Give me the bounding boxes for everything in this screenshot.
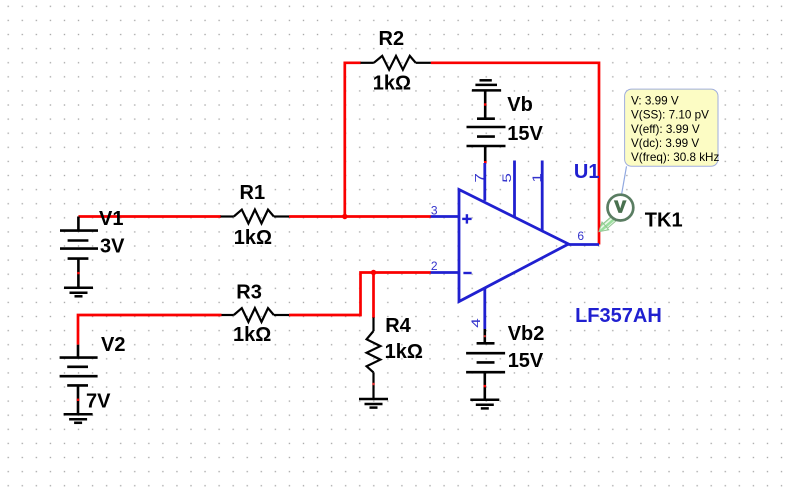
- svg-text:4: 4: [469, 318, 483, 328]
- wire feedback vertical left: [343, 62, 346, 217]
- ground under R4: [359, 399, 388, 408]
- svg-text:15V: 15V: [508, 350, 544, 372]
- resistor R4: [367, 318, 381, 400]
- svg-text:V(eff): 3.99 V: V(eff): 3.99 V: [631, 123, 700, 136]
- svg-text:U1: U1: [574, 161, 600, 183]
- svg-text:V: 3.99 V: V: 3.99 V: [631, 94, 679, 107]
- svg-text:Vb: Vb: [507, 94, 533, 116]
- svg-text:7V: 7V: [86, 391, 111, 413]
- svg-text:R4: R4: [385, 315, 411, 337]
- wire node B to op-amp pin 2: [374, 271, 432, 274]
- node Vb ground connector: [484, 103, 486, 105]
- svg-text:R3: R3: [236, 282, 262, 304]
- svg-text:TK1: TK1: [645, 210, 683, 232]
- svg-text:V1: V1: [99, 208, 123, 230]
- svg-text:3: 3: [431, 204, 438, 218]
- svg-text:2: 2: [431, 259, 438, 273]
- node V1 ground connector: [77, 272, 79, 274]
- svg-text:V(freq): 30.8 kHz: V(freq): 30.8 kHz: [631, 151, 719, 164]
- svg-text:V(SS): 7.10 pV: V(SS): 7.10 pV: [631, 109, 709, 122]
- svg-text:LF357AH: LF357AH: [575, 305, 662, 327]
- op-amp plus sign: [462, 214, 471, 223]
- svg-text:3V: 3V: [100, 236, 125, 258]
- junction node B: [371, 270, 376, 275]
- svg-text:1kΩ: 1kΩ: [234, 227, 272, 249]
- wire R3 to node B: [289, 273, 374, 316]
- svg-text:V(dc): 3.99 V: V(dc): 3.99 V: [631, 137, 699, 150]
- voltage source V1: [60, 217, 98, 288]
- ground under Vb2: [470, 400, 499, 409]
- svg-text:R2: R2: [379, 28, 405, 50]
- wire V1 to R1: [78, 215, 221, 218]
- resistor R3: [222, 308, 290, 322]
- svg-text:Vb2: Vb2: [508, 323, 545, 345]
- node R4 ground connector: [372, 383, 374, 385]
- power source Vb2: [466, 329, 505, 400]
- wire top to R2: [344, 61, 362, 64]
- probe tooltip TK1: [625, 89, 720, 166]
- svg-text:15V: 15V: [507, 123, 543, 145]
- resistor R1: [221, 210, 290, 224]
- svg-text:6: 6: [577, 229, 584, 243]
- wire R1 to op-amp pin 3: [289, 215, 431, 218]
- node Vb2 top connector: [484, 335, 486, 337]
- svg-text:1kΩ: 1kΩ: [373, 73, 411, 95]
- ground under V1: [64, 288, 93, 297]
- svg-text:R1: R1: [240, 182, 266, 204]
- svg-text:5: 5: [500, 173, 514, 183]
- node Vb2 ground connector: [484, 385, 486, 387]
- junction node A: [342, 214, 347, 219]
- node V2 ground connector: [77, 399, 79, 401]
- op-amp minus sign: [463, 272, 471, 274]
- ground under V2: [64, 414, 93, 423]
- probe leader line: [622, 166, 627, 195]
- probe TK1: [599, 195, 633, 232]
- svg-text:1: 1: [530, 173, 544, 183]
- svg-text:7: 7: [472, 173, 486, 183]
- wire node B to R4: [372, 273, 375, 319]
- inverted ground above Vb: [472, 80, 501, 90]
- svg-text:V2: V2: [101, 334, 125, 356]
- wire R2 to output node: [431, 63, 599, 245]
- resistor R2: [361, 56, 431, 70]
- svg-text:1kΩ: 1kΩ: [233, 324, 271, 346]
- node Vb pin connector: [484, 161, 487, 164]
- power source Vb: [467, 90, 506, 161]
- svg-text:1kΩ: 1kΩ: [385, 341, 423, 363]
- op-amp U1: [431, 161, 599, 330]
- voltage source V2: [60, 345, 98, 415]
- wire V2 to R3: [78, 315, 222, 345]
